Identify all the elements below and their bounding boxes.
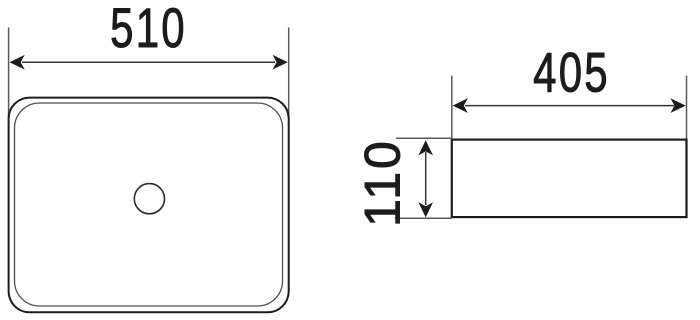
svg-text:510: 510 <box>110 0 187 60</box>
svg-text:405: 405 <box>533 42 610 104</box>
svg-text:110: 110 <box>355 138 411 227</box>
